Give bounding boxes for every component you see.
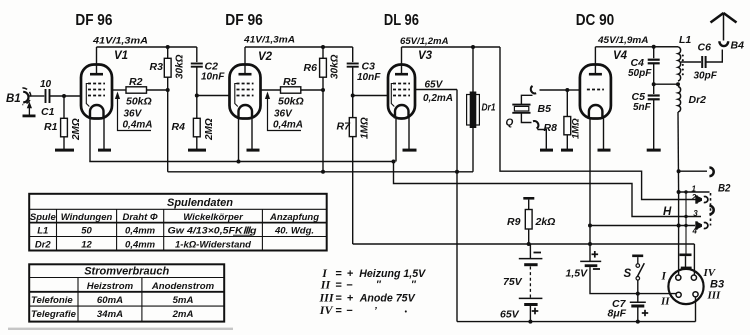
scan smudge under table xyxy=(8,328,233,330)
choke Dr1 (iron core form) xyxy=(467,95,480,126)
svg-text:I: I xyxy=(661,271,667,283)
socket B3 pin I xyxy=(676,275,681,280)
capacitor C7 plus sign xyxy=(642,312,648,314)
node junction rail B / stage2 xyxy=(321,170,325,174)
svg-text:Spulendaten: Spulendaten xyxy=(167,197,233,209)
svg-text:R1: R1 xyxy=(44,121,58,133)
node junction screen3/rail B xyxy=(455,170,459,174)
resistor R1 2M ohm xyxy=(61,118,68,137)
wire C4 to C5 junction xyxy=(653,63,655,94)
node junction C4/C5/L1-Dr2 xyxy=(652,82,656,86)
node junction rail A / V2 filament xyxy=(237,160,241,164)
wire rail B down to bottom rail (+65V) xyxy=(456,172,458,322)
quartz crystal B5 xyxy=(512,104,530,106)
node junction t3 xyxy=(684,215,687,218)
svg-text:Windungen: Windungen xyxy=(61,212,113,223)
wire V1 right filament to ground xyxy=(103,119,105,150)
resistor R7 1M ohm xyxy=(349,118,356,137)
battery 1,5V plus sign xyxy=(592,253,599,255)
B2 middle jack arc xyxy=(709,206,713,215)
node junction R9 bottom xyxy=(527,242,531,246)
svg-text:V2: V2 xyxy=(258,51,273,63)
wire B5 upper jack to junction xyxy=(540,89,568,91)
svg-text:2mA: 2mA xyxy=(172,309,194,320)
svg-text:C6: C6 xyxy=(698,42,712,54)
resistor R9 lead xyxy=(528,200,530,210)
wire bottom rail up to B3 pin III xyxy=(695,297,697,322)
svg-text:8μF: 8μF xyxy=(608,308,627,320)
svg-text:40. Wdg.: 40. Wdg. xyxy=(274,226,314,237)
tube V3 DL96 output pentode xyxy=(388,65,415,119)
svg-text:L1: L1 xyxy=(37,226,48,237)
svg-text:1-kΩ-Widerstand: 1-kΩ-Widerstand xyxy=(175,239,251,250)
tube V4 DC90 triode xyxy=(580,65,611,119)
wire +anode feed from rail 3 down and right to B2 terminal 2 xyxy=(500,47,696,200)
coil L1 xyxy=(654,46,678,48)
battery 75V minus sign xyxy=(534,252,542,254)
wire R2 to node 36V xyxy=(147,89,168,91)
wire rail A jog down xyxy=(394,162,702,217)
svg-text:R5: R5 xyxy=(283,76,297,88)
svg-text:10: 10 xyxy=(40,79,52,90)
svg-text:IV: IV xyxy=(319,303,334,317)
svg-text:R4: R4 xyxy=(172,121,186,133)
wire R5 to node xyxy=(301,89,323,91)
wire C7 to bottom rail xyxy=(637,308,639,322)
capacitor C4 50pF xyxy=(648,59,660,61)
svg-text:V1: V1 xyxy=(114,50,128,62)
table Stromverbrauch xyxy=(29,264,224,321)
wire C1 to V1 grid xyxy=(50,95,82,97)
wire V4 left filament long lead down xyxy=(589,119,591,262)
wire to B2 top jack xyxy=(679,170,707,172)
svg-text:0,4mm: 0,4mm xyxy=(125,239,156,250)
node junction battery 1,5V plus xyxy=(588,242,592,246)
svg-text:50pF: 50pF xyxy=(628,68,652,79)
node junction V4 filament / t4 line xyxy=(588,224,592,228)
terminal 4 jack cup xyxy=(704,223,708,229)
ground bar below B5 xyxy=(540,149,553,152)
connector B4 jack cup xyxy=(719,41,728,46)
anode rail stage 2 (41V) xyxy=(245,46,353,48)
rail B 65V screen feed line xyxy=(168,171,473,173)
capacitor C5 5nF xyxy=(648,94,660,96)
svg-text:IV: IV xyxy=(703,267,717,279)
svg-text:4: 4 xyxy=(692,227,698,236)
resistor R4 2M ohm xyxy=(193,118,200,137)
ground bar below V2 filament xyxy=(247,149,260,152)
wire V2 screen grid to R5 xyxy=(261,89,281,91)
resistor R3 top lead xyxy=(167,47,169,58)
svg-text:30pF: 30pF xyxy=(694,71,718,82)
node junction L1/Dr2/C5 line xyxy=(676,82,680,86)
node junction C3/R7/V3 grid xyxy=(351,94,355,98)
wire quartz top to upper jack xyxy=(521,95,532,104)
svg-text:5nF: 5nF xyxy=(633,102,652,113)
svg-text:Spule: Spule xyxy=(30,212,57,223)
svg-text:II: II xyxy=(320,278,332,292)
resistor R6 bottom lead xyxy=(322,77,324,90)
svg-text:Wickelkörper: Wickelkörper xyxy=(183,212,244,223)
svg-text:L1: L1 xyxy=(679,34,691,46)
svg-text:−: − xyxy=(346,305,353,317)
svg-text:B1: B1 xyxy=(6,93,21,105)
wire Dr2 down to B2/B3 column xyxy=(677,112,680,192)
terminal 4 wire xyxy=(590,225,695,227)
svg-text:34mA: 34mA xyxy=(97,309,123,320)
connector B5 upper jack arc xyxy=(531,86,536,94)
node junction t1 xyxy=(677,190,681,194)
svg-text:R6: R6 xyxy=(304,62,318,74)
svg-text:B4: B4 xyxy=(731,40,745,52)
wire t-bar link down to B3 shell xyxy=(685,192,687,254)
svg-text:10nF: 10nF xyxy=(201,72,225,83)
wire C6 to antenna jack B4 xyxy=(706,50,723,63)
wire grid node to V2 xyxy=(197,95,230,97)
svg-text:30kΩ: 30kΩ xyxy=(175,54,186,79)
ground bar below C5 xyxy=(647,149,661,152)
connector B5 lower jack arc xyxy=(533,121,538,129)
node junction rail/Dr1 xyxy=(471,45,475,49)
node junction battery top xyxy=(529,243,531,245)
ground bar below V1 filament xyxy=(98,149,111,152)
svg-text:S: S xyxy=(624,268,632,280)
svg-text:60mA: 60mA xyxy=(97,295,123,306)
svg-text:V4: V4 xyxy=(613,50,628,62)
svg-text:12: 12 xyxy=(81,239,92,250)
battery 65V plates xyxy=(519,297,543,299)
capacitor C6 30pF xyxy=(701,56,703,68)
wire Dr1 bottom to rail B xyxy=(472,128,474,172)
resistor R5 50k ohm xyxy=(281,87,301,93)
svg-text:Heizung 1,5V: Heizung 1,5V xyxy=(359,268,427,280)
wire B2 column down to B3 pin I xyxy=(678,192,680,275)
svg-text:41V/1,3mA: 41V/1,3mA xyxy=(243,35,295,46)
svg-text:65V/1,2mA: 65V/1,2mA xyxy=(400,36,449,47)
resistor R1 lead to ground xyxy=(63,137,65,149)
svg-text:1,5V: 1,5V xyxy=(566,268,589,280)
measurement arrow bracket stage 2 xyxy=(268,95,302,131)
terminal 4 plug xyxy=(697,222,703,230)
svg-text:DF 96: DF 96 xyxy=(225,12,263,29)
capacitor C2 10nF xyxy=(191,63,203,65)
resistor R8 lead xyxy=(566,90,568,117)
resistor R4 lead xyxy=(196,96,198,119)
wire V3 left filament down to rail A xyxy=(395,119,397,162)
svg-text:H: H xyxy=(663,206,672,218)
svg-text:30kΩ: 30kΩ xyxy=(330,54,341,79)
resistor R9 2k ohm xyxy=(525,210,532,230)
node junction rail/R3 xyxy=(166,45,170,49)
svg-text:’: ’ xyxy=(374,306,377,317)
wire V4 right filament to ground xyxy=(603,119,605,150)
svg-text:III: III xyxy=(707,290,722,302)
terminal 2 plug xyxy=(697,196,703,204)
svg-text:=: = xyxy=(335,268,342,280)
svg-text:C3: C3 xyxy=(362,61,376,73)
wire V2 left filament down to rail A xyxy=(238,119,240,162)
svg-text:Dr1: Dr1 xyxy=(482,103,496,114)
resistor R2 50k ohm xyxy=(126,87,147,93)
svg-text:1: 1 xyxy=(692,184,697,193)
resistor R9 supply stub bar xyxy=(523,197,534,200)
wire S to junction xyxy=(637,280,639,294)
coil L1 tap dotted marker xyxy=(682,54,684,56)
ground bar below R8 xyxy=(561,149,573,152)
svg-text:50kΩ: 50kΩ xyxy=(278,96,304,108)
resistor R4 lead to ground xyxy=(196,137,198,149)
resistor R6 30k ohm xyxy=(320,58,327,77)
svg-text:2kΩ: 2kΩ xyxy=(535,216,556,228)
wire grid node to V3 xyxy=(353,95,389,97)
node junction rail/C4 xyxy=(652,45,656,49)
battery 1,5V plates xyxy=(580,260,601,262)
socket B3 top stub bar xyxy=(680,254,692,257)
node junction rail A / V3 filament xyxy=(392,160,396,164)
wire C5 to ground xyxy=(653,99,655,149)
svg-text:5mA: 5mA xyxy=(173,295,194,306)
svg-text:Heizstrom: Heizstrom xyxy=(87,281,134,292)
svg-text:+: + xyxy=(347,293,354,305)
socket B3 pin III xyxy=(693,292,698,297)
wire battery 65V to bottom rail xyxy=(529,306,531,322)
svg-text:DL 96: DL 96 xyxy=(384,12,419,29)
svg-text:Dr2: Dr2 xyxy=(689,94,707,106)
svg-text:B5: B5 xyxy=(538,103,552,115)
connector B1 ground bar xyxy=(23,115,36,118)
wire V3 anode lead up xyxy=(401,47,403,74)
socket B3 pin II xyxy=(676,292,681,297)
wire rail to C2 xyxy=(196,47,198,62)
svg-text:1MΩ: 1MΩ xyxy=(360,117,371,139)
wire +1,5V line R7/R9/battery xyxy=(353,243,695,245)
wire V3 right filament to ground xyxy=(408,119,410,150)
bottom +anode rail xyxy=(457,321,696,323)
capacitor C1 xyxy=(45,89,47,103)
svg-text:DC 90: DC 90 xyxy=(576,12,615,29)
svg-text:36V: 36V xyxy=(124,109,143,120)
svg-text:R8: R8 xyxy=(544,122,558,134)
choke Dr2 xyxy=(678,87,681,113)
svg-text:50kΩ: 50kΩ xyxy=(126,96,152,108)
svg-text:=: = xyxy=(335,280,342,292)
svg-text:2: 2 xyxy=(691,193,697,202)
svg-text:75V: 75V xyxy=(503,276,523,288)
resistor R8 lead to ground xyxy=(566,135,568,149)
svg-text:0,2mA: 0,2mA xyxy=(423,93,453,104)
svg-text:C1: C1 xyxy=(41,106,55,118)
wire V3 screen down to rail B xyxy=(456,90,458,172)
resistor R3 30k ohm xyxy=(164,58,171,77)
svg-text:B2: B2 xyxy=(718,183,731,195)
svg-text:41V/1,3mA: 41V/1,3mA xyxy=(92,36,148,47)
svg-text:R7: R7 xyxy=(337,121,352,133)
connector B1 plug arc xyxy=(23,92,28,103)
choke Dr1 top lead xyxy=(472,47,474,92)
resistor R7 lead xyxy=(352,96,354,118)
svg-text:Telegrafie: Telegrafie xyxy=(31,309,77,320)
svg-text:Gw 4/13×0,5FKⅢg: Gw 4/13×0,5FKⅢg xyxy=(168,226,257,236)
battery 65V plus sign xyxy=(532,310,539,312)
ground bar below R1 xyxy=(55,149,74,152)
wire battery 75V top lead xyxy=(529,244,531,258)
socket B3 shell circle xyxy=(668,269,703,304)
node junction Dr2 line / top jack xyxy=(677,169,681,173)
wire B1 to C1 xyxy=(29,95,45,97)
svg-text:+: + xyxy=(347,268,354,280)
svg-text:Anode 75V: Anode 75V xyxy=(359,293,417,305)
socket B3 keyway bar xyxy=(681,267,692,270)
wire lower jack to ground xyxy=(538,130,547,149)
svg-text:Anodenstrom: Anodenstrom xyxy=(151,281,215,292)
measurement arrow bracket stage 1 xyxy=(118,95,152,131)
svg-text:3: 3 xyxy=(693,209,698,218)
node junction B5/R8/V4 grid xyxy=(565,88,569,92)
wire quartz bottom to lower jack xyxy=(521,113,531,123)
wire V1 anode lead up xyxy=(96,47,98,74)
capacitor C7 8uF electrolytic xyxy=(637,294,639,302)
svg-text:10nF: 10nF xyxy=(357,72,381,83)
connector B1 socket dashed arc xyxy=(22,88,30,105)
terminal 2 jack cup xyxy=(704,197,708,203)
svg-text:DF 96: DF 96 xyxy=(75,12,112,29)
anode rail stage 4 (45V) xyxy=(595,46,678,48)
wire C3 to V3 grid node xyxy=(352,67,354,96)
wire L1 tap to C6 xyxy=(681,61,701,63)
svg-text:=: = xyxy=(335,305,342,317)
svg-text:Draht Φ: Draht Φ xyxy=(122,212,157,223)
anode rail stage 3 (65V) xyxy=(402,46,501,48)
switch S supply stub bar xyxy=(632,255,643,258)
resistor R6 top lead xyxy=(322,47,324,58)
node junction t4 / Dr2 column xyxy=(677,224,681,228)
B2 plug link dashed line xyxy=(710,193,712,226)
switch S xyxy=(637,257,639,264)
svg-text:0,4mA: 0,4mA xyxy=(123,120,153,131)
ground bar below V4 filament xyxy=(598,149,611,152)
wire V4 grid to junction xyxy=(567,89,580,91)
svg-text:1MΩ: 1MΩ xyxy=(571,118,582,139)
svg-text:−: − xyxy=(346,280,353,292)
battery 1,5V minus sign xyxy=(593,268,600,270)
node junction C1/R1 xyxy=(62,94,66,98)
antenna symbol xyxy=(723,13,725,41)
node junction rail/R6 xyxy=(321,45,325,49)
wire V1 screen grid to R2 xyxy=(112,89,126,91)
svg-text:0,4mA: 0,4mA xyxy=(273,120,303,131)
svg-text:Stromverbrauch: Stromverbrauch xyxy=(84,266,169,278)
svg-text:36V: 36V xyxy=(274,109,293,120)
svg-text:50: 50 xyxy=(81,226,92,237)
wire screen node 2 down to rail B xyxy=(322,90,324,172)
svg-text:V3: V3 xyxy=(418,50,433,62)
socket B3 top lead xyxy=(685,256,687,267)
svg-text:2MΩ: 2MΩ xyxy=(71,118,82,141)
connector B1 plug arrow to ground xyxy=(28,105,30,115)
capacitor C4 top lead xyxy=(653,47,655,58)
svg-text:Anzapfung: Anzapfung xyxy=(269,212,319,223)
socket B3 pin IV xyxy=(691,275,696,280)
tube V1 DF96 pentode xyxy=(81,65,112,119)
node junction bottom rail / C7 xyxy=(636,320,640,324)
wire V4 anode lead up xyxy=(594,47,596,74)
node junction C2/R4/V2 grid xyxy=(195,94,199,98)
svg-text:R3: R3 xyxy=(150,61,164,73)
resistor R8 1M ohm xyxy=(564,117,571,135)
anode rail stage 1 (41V) xyxy=(97,46,197,48)
svg-text:Telefonie: Telefonie xyxy=(31,295,73,306)
node junction R5/R6/rail B xyxy=(321,88,325,92)
resistor R1 lead xyxy=(63,96,65,118)
svg-text:65V: 65V xyxy=(500,309,520,321)
wire junction to coil tap node xyxy=(654,83,678,85)
wire V2 anode lead up xyxy=(244,47,246,74)
ground bar below V3 filament xyxy=(403,149,417,152)
wire battery 1,5V bottom to pin II line xyxy=(590,267,676,294)
svg-text:0,4mm: 0,4mm xyxy=(125,226,156,237)
svg-text:R9: R9 xyxy=(507,216,521,228)
wire V1 left filament down to rail A xyxy=(89,119,91,162)
svg-text:II: II xyxy=(660,296,670,308)
svg-text:2MΩ: 2MΩ xyxy=(204,118,215,141)
wire rail 2 to C3 xyxy=(352,47,354,62)
node junction bottom rail / battery xyxy=(528,320,532,324)
node junction S/C7 xyxy=(636,292,640,296)
wire screen node down to 65V rail B xyxy=(167,90,169,172)
svg-text:Q: Q xyxy=(506,118,514,129)
svg-text:65V: 65V xyxy=(425,80,444,91)
svg-text:R2: R2 xyxy=(129,76,143,88)
table Spulendaten xyxy=(29,194,327,251)
battery internal dashed link xyxy=(529,267,531,298)
svg-text:45V/1,9mA: 45V/1,9mA xyxy=(597,35,649,46)
battery 75V plates xyxy=(519,258,543,260)
resistor R3 bottom lead xyxy=(167,77,169,90)
svg-text:=: = xyxy=(335,293,342,305)
wire line down to B3 pin IV xyxy=(693,244,695,275)
ground bar below R4 xyxy=(188,149,206,152)
tube V2 DF96 pentode xyxy=(230,65,261,119)
svg-text:Dr2: Dr2 xyxy=(35,239,52,250)
wire V3 screen grid out right xyxy=(415,89,457,91)
capacitor C3 10nF xyxy=(347,63,359,65)
resistor R9 lead down xyxy=(528,229,530,244)
wire V2 right filament to ground xyxy=(251,119,253,150)
rail A filament line xyxy=(89,161,393,163)
node junction R2/R3/rail B xyxy=(166,88,170,92)
wire C2 to V2 grid node xyxy=(196,67,198,96)
terminal 1 wire xyxy=(679,191,710,193)
wire R7 long lead down to +1.5V line xyxy=(352,137,354,244)
B2 top jack arc xyxy=(709,168,713,177)
